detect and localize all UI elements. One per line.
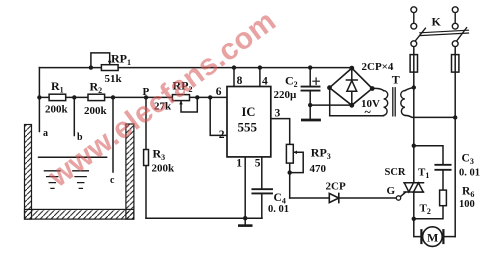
wire AC right to transformer secondary [372,88,383,90]
wire C2 top [309,68,311,87]
svg-text:555: 555 [238,119,258,134]
svg-text:220µ: 220µ [274,89,298,101]
wire RP1 wiper bracket [91,53,110,68]
potentiometer RP3 [286,144,293,163]
RP3 wiper arrowhead [294,151,298,155]
wire right rail [454,47,456,237]
svg-text:T: T [392,73,400,87]
svg-text:5: 5 [255,158,261,170]
node electrode a [37,95,41,99]
electrode a [38,68,40,132]
bridge inner diode [346,71,357,104]
svg-text:R3: R3 [153,147,166,163]
node primary bottom right rail [453,115,457,119]
node bridge right [370,86,375,91]
wire snubber top branch [414,146,443,165]
wire R6 bottom return [414,206,443,219]
fuse right [452,55,459,73]
svg-text:T2: T2 [420,203,431,217]
node bridge left [327,85,332,90]
RP2 wiper arrowhead [179,101,183,105]
resistor R3 [144,150,149,166]
electrode c [112,97,114,172]
relay K left contact [411,7,426,47]
node C2 top [308,65,312,69]
svg-text:IC: IC [242,105,256,119]
svg-text:T1: T1 [418,167,429,181]
capacitor C4 plates [252,189,272,193]
wire RP2 wiper bracket [181,97,197,112]
water surface line [39,156,107,158]
wire top supply bus [39,67,351,69]
wire pin5 to C4 [261,157,263,189]
wire pin2 jog [210,97,227,135]
water tank left wall [25,125,32,220]
wire pin1 down [244,157,246,218]
svg-text:3: 3 [275,108,281,120]
svg-text:C3: C3 [462,152,474,166]
svg-text:0. 01: 0. 01 [459,168,480,179]
node pin8 [232,65,236,69]
node electrode b [72,95,76,99]
wire RP3 wiper loop [290,152,304,172]
bridge rectifier diamond [330,68,373,105]
fuse left [410,55,417,73]
wire AC left to transformer secondary [330,115,384,117]
wire pin3 to RP3 [271,119,290,145]
potentiometer RP1 [101,65,118,71]
svg-text:470: 470 [310,163,327,175]
svg-text:~: ~ [365,105,372,119]
wire ground stub C2 [309,105,311,119]
node pin1 ground [243,216,247,220]
electrode b [73,97,75,135]
wire C3 to R6 [442,170,444,190]
node top bus / RP1 wiper [89,65,93,69]
ground symbol near C2 [302,119,319,122]
wire pin4 [259,68,261,87]
wire bottom ground bus [146,217,262,219]
motor brush right [442,230,444,243]
transformer primary winding [401,91,405,116]
node primary top [412,85,416,89]
svg-text:200k: 200k [152,162,176,174]
svg-text:2CP: 2CP [326,180,346,192]
node snubber top [412,144,416,148]
motor M circle [423,227,443,247]
node C2 bottom [308,103,312,107]
wire main line fuse to triac [413,47,415,183]
svg-text:R2: R2 [90,80,103,96]
wire bridge AC left drop [329,88,331,116]
wire bridge minus to C2 [310,104,352,106]
transformer secondary winding [384,91,388,116]
svg-text:6: 6 [216,86,222,98]
RP1 wiper arrowhead [108,61,112,65]
node P [144,95,148,99]
wire pin8 [233,68,235,87]
node pin4 [258,65,262,69]
capacitor C2 plates [302,87,320,91]
svg-text:1: 1 [236,158,242,170]
wire C4 to bottom bus [261,193,263,218]
svg-text:51k: 51k [105,73,123,85]
wire C2 bottom to DC minus [309,91,311,106]
svg-text:2: 2 [219,129,225,141]
IC U1 555 box [227,87,271,157]
triac SCR [404,183,424,192]
node RP3 wiper [288,170,292,174]
wire gate slant to triac [400,192,405,197]
ground symbol near pin1 [239,224,251,227]
svg-text:RP3: RP3 [311,146,331,162]
svg-text:200k: 200k [84,105,108,117]
capacitor C2 plus sign [313,78,319,84]
relay K right contact [452,7,466,47]
svg-text:a: a [43,128,48,139]
resistor R2 [88,94,105,100]
node bridge top [349,66,354,71]
resistor R6 [440,190,447,206]
relay K linkage [420,30,469,35]
motor brush left [420,230,422,243]
wire triac to motor [414,192,422,237]
svg-text:2CP×4: 2CP×4 [362,61,394,73]
wire gate line with 2CP diode [290,197,397,199]
svg-text:M: M [427,230,438,244]
wire transformer primary top [405,88,414,91]
node pin6 pin2 [208,95,212,99]
node RP2 wiper [195,95,199,99]
node electrode c [111,95,115,99]
water tank right wall [126,124,134,219]
wire R3 branch down [145,97,147,218]
svg-text:8: 8 [237,75,243,87]
wire motor right [443,236,455,238]
potentiometer RP2 [172,95,189,101]
water mark left [44,171,60,189]
water mark right [73,171,89,189]
svg-text:G: G [387,185,396,197]
svg-text:0. 01: 0. 01 [268,204,289,215]
terminal G circle [396,196,400,200]
node snubber bottom [412,217,416,221]
svg-text:R6: R6 [462,185,474,199]
wire middle bus (R1 R2 P RP2 pin6) [39,96,227,98]
wire RP3 bottom down [289,163,291,198]
svg-text:c: c [110,175,115,186]
svg-text:200k: 200k [45,104,69,116]
transformer T core [393,88,395,116]
capacitor C3 plates [435,165,450,170]
diode 2CP [329,193,339,202]
wire transformer primary bottom to right rail [405,115,455,117]
svg-text:4: 4 [262,76,268,88]
resistor R1 [49,94,66,100]
svg-text:SCR: SCR [385,167,406,178]
svg-text:C2: C2 [285,73,298,89]
svg-text:K: K [432,14,442,28]
svg-text:RP1: RP1 [111,52,131,68]
svg-text:R1: R1 [51,79,64,95]
wire ground stub pin1 [244,218,246,224]
water tank bottom wall [25,209,134,219]
node bridge bottom [349,103,354,108]
svg-text:100: 100 [459,199,475,210]
